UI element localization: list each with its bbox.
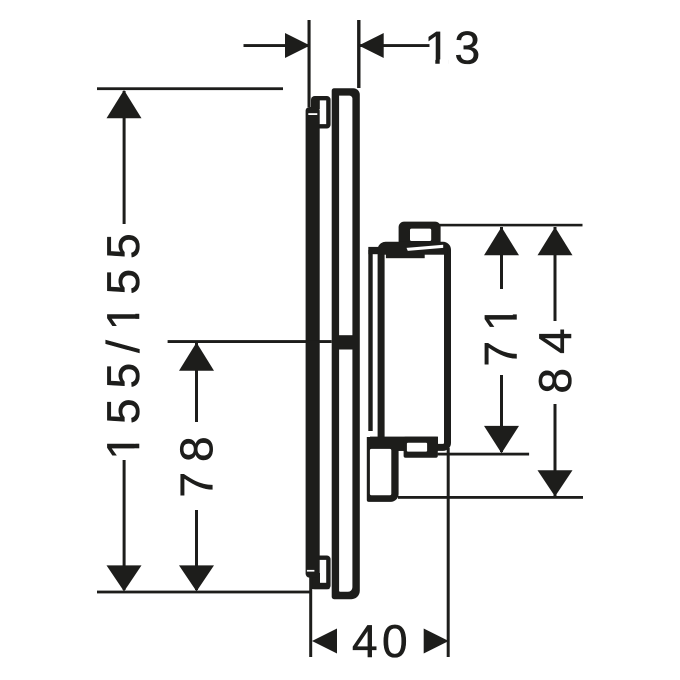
handle body top bar <box>380 245 448 255</box>
dim 84: bottom arrowhead <box>538 470 573 496</box>
lower protrusion box <box>367 437 399 502</box>
foot clip slot <box>407 443 427 452</box>
dim 13: right arrowhead <box>359 33 384 58</box>
front plate tick bottom <box>307 570 315 572</box>
dim 40: right arrowhead <box>424 629 449 654</box>
dim 13: left extension line <box>308 20 311 107</box>
dim 71: label <box>485 308 517 365</box>
dim 155/155: dimension line lower <box>123 460 126 590</box>
dim 155/155: dimension line upper <box>123 91 126 224</box>
handle body <box>381 245 447 447</box>
dim 71: dimension line lower <box>500 375 503 452</box>
front plate tick top <box>308 113 317 115</box>
dim 71: dimension line upper <box>500 227 503 289</box>
dim 71: top arrowhead <box>484 227 519 255</box>
wall plate back rectangle <box>332 88 360 599</box>
dim 13: left tail <box>244 44 310 47</box>
mid band across back plate <box>339 335 354 349</box>
bottom bracket clip <box>313 558 328 587</box>
dim 71: bottom extension line <box>438 453 529 456</box>
dim 84: label <box>539 330 572 392</box>
dim 155/155: top extension line <box>97 87 283 90</box>
dim 40: label <box>353 625 406 658</box>
sleeve top cap <box>368 247 378 254</box>
dim 78: dimension line upper <box>195 343 198 422</box>
dim 84: dimension line upper <box>554 227 557 321</box>
dim 84: dimension line lower <box>554 404 557 496</box>
dim 78: dimension line lower <box>195 510 198 590</box>
sleeve line between plate and handle <box>368 250 372 431</box>
dim 71: bottom arrowhead <box>484 426 519 453</box>
dim 84: top arrowhead <box>538 227 573 255</box>
chamfer highlight in top bar <box>407 245 444 251</box>
dim 78: top extension line <box>168 340 332 343</box>
top bracket clip <box>313 98 328 126</box>
front plate bar <box>306 107 320 578</box>
dim 13: label <box>428 31 478 64</box>
handle body bottom bar <box>370 437 381 448</box>
dim 40: right extension line <box>447 448 450 657</box>
dim 78: label <box>180 438 213 495</box>
foot clip under handle body <box>404 437 438 458</box>
dim 40: left extension line <box>309 578 312 658</box>
dim 84: bottom extension line <box>398 496 583 499</box>
dim 155/155: bottom arrowhead <box>107 565 142 591</box>
lower protrusion box interior <box>370 449 391 495</box>
dim 13: right extension line <box>357 20 360 88</box>
dim 40: left arrowhead <box>312 629 337 654</box>
dim 13: left arrowhead <box>285 33 310 58</box>
knob window <box>410 229 431 241</box>
dim 13: right tail <box>359 44 430 47</box>
knob on top of handle <box>399 222 441 251</box>
dim 155/155: bottom extension line <box>97 591 311 594</box>
dim 71/84: top extension line <box>434 224 583 227</box>
dim 78: bottom arrowhead <box>179 565 214 591</box>
dim 155/155: label <box>106 235 140 456</box>
dim 155/155: top arrowhead <box>107 90 142 118</box>
dim 78: top arrowhead <box>179 343 214 371</box>
